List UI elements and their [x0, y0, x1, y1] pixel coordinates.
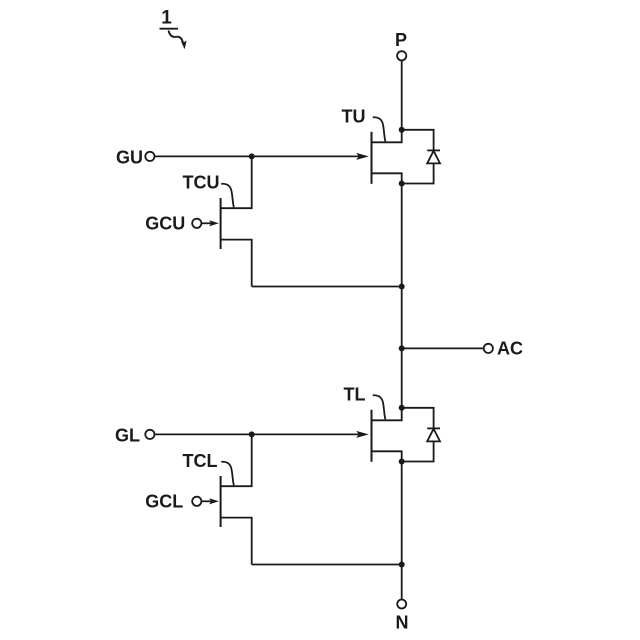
body diode of TL wires [402, 408, 434, 428]
node GU junction [249, 153, 255, 159]
svg-text:GL: GL [115, 426, 140, 446]
svg-text:N: N [396, 613, 409, 633]
terminal GCU circle [192, 219, 201, 228]
transistor TCL source lead [221, 518, 252, 565]
figure leader squiggle arrow [169, 31, 184, 44]
figure leader arrowhead [181, 41, 187, 50]
node TU drain junction [399, 127, 405, 133]
svg-text:AC: AC [497, 339, 523, 359]
svg-text:TU: TU [342, 106, 366, 126]
terminal AC label [497, 339, 523, 359]
transistor TL drain lead [372, 408, 402, 421]
wire GU to TU gate [155, 155, 362, 157]
node AC junction [399, 345, 405, 351]
node TL drain junction [399, 405, 405, 411]
svg-text:GCU: GCU [145, 213, 185, 233]
terminal GU circle [145, 152, 154, 161]
body diode of TU cathode bar [427, 149, 440, 151]
terminal N label [396, 613, 409, 633]
wire TCU source to midpoint node [252, 286, 402, 288]
wire AC branch [402, 347, 484, 349]
terminal GCL label [145, 492, 183, 512]
svg-text:1: 1 [161, 8, 172, 29]
wire GL to TL gate [155, 433, 362, 435]
wire GCU to TCU gate [202, 222, 213, 224]
wire P to TU drain node [401, 60, 403, 129]
terminal GCL circle [192, 497, 201, 506]
transistor TCU label leader [221, 184, 234, 208]
body diode of TL anode wire [402, 441, 434, 461]
terminal GL label [115, 426, 140, 446]
svg-text:GCL: GCL [145, 492, 183, 512]
transistor TU gate bar [371, 132, 373, 184]
body diode of TU wires [402, 130, 434, 150]
svg-text:GU: GU [116, 147, 143, 167]
wire GU arrowhead at TU gate [356, 153, 369, 160]
terminal GL circle [145, 430, 154, 439]
figure number 1 [161, 8, 172, 29]
wire GU junction to TCU drain [221, 156, 252, 208]
transistor TCU source lead [221, 240, 252, 287]
transistor TCL label leader [221, 462, 234, 486]
wire TL source to N terminal [401, 462, 403, 600]
wire GCL arrowhead at TCL gate [209, 498, 219, 504]
svg-text:TL: TL [344, 385, 366, 405]
terminal P circle [397, 51, 406, 60]
svg-text:TCU: TCU [183, 173, 220, 193]
terminal P label [395, 30, 407, 50]
body diode of TU triangle [427, 151, 440, 164]
body diode of TL cathode bar [427, 427, 440, 429]
node TL source junction [399, 459, 405, 465]
transistor TL label [344, 385, 366, 405]
node TU source junction [399, 181, 405, 187]
transistor TCL label [183, 451, 218, 471]
node N junction [399, 562, 405, 568]
wire GL arrowhead at TL gate [356, 431, 369, 438]
transistor TCU gate bar [220, 198, 222, 249]
transistor TU label [342, 106, 366, 126]
body diode of TL triangle [427, 429, 440, 442]
transistor TCU label [183, 173, 220, 193]
figure number underline [160, 28, 179, 30]
transistor TCL gate bar [220, 476, 222, 527]
transistor TU source lead [372, 173, 402, 183]
transistor TU label leader [373, 117, 386, 141]
wire GCL to TCL gate [202, 500, 213, 502]
wire GCU arrowhead at TCU gate [209, 220, 219, 226]
svg-text:P: P [395, 30, 407, 50]
transistor TL source lead [372, 451, 402, 461]
terminal GU label [116, 147, 143, 167]
wire GL junction to TCL drain [221, 434, 252, 486]
transistor TL label leader [373, 395, 386, 419]
terminal AC circle [484, 344, 493, 353]
terminal GCU label [145, 213, 185, 233]
terminal N circle [397, 600, 406, 609]
svg-text:TCL: TCL [183, 451, 218, 471]
body diode of TU anode wire [402, 163, 434, 183]
node midpoint junction [399, 284, 405, 290]
transistor TL gate bar [371, 410, 373, 462]
wire TU source to TL drain [401, 184, 403, 408]
node GL junction [249, 431, 255, 437]
wire TCL source to N node [252, 564, 402, 566]
transistor TU drain lead [372, 130, 402, 143]
